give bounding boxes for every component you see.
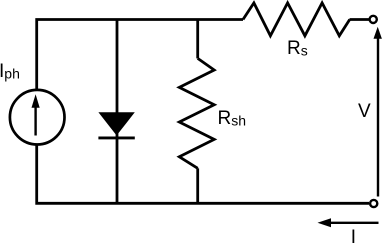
voltage arrow V (line) (377, 37, 379, 197)
terminal negative (open circle) (370, 200, 377, 207)
wire top horizontal left + left vertical (corner) (37, 20, 243, 91)
label Rsh (218, 108, 247, 130)
wire Rsh branch bottom lead (196, 168, 199, 203)
diode D cathode bar (98, 136, 134, 139)
label Rs (287, 38, 308, 60)
resistor Rs (series) zigzag (243, 3, 350, 36)
current arrow I (head) (318, 218, 332, 227)
resistor Rsh (shunt) zigzag (179, 58, 214, 168)
diode D triangle (98, 112, 134, 135)
label Iph (0, 61, 20, 83)
voltage arrow V (head) (374, 27, 382, 39)
wire left vertical (bottom) + bottom horizontal (corner) (37, 145, 369, 204)
wire diode branch vertical (116, 20, 119, 204)
label V (358, 101, 371, 123)
terminal positive (open circle) (370, 16, 377, 23)
wire Rs to positive terminal (350, 18, 370, 21)
label I (351, 227, 356, 249)
current source Iph circle (10, 90, 65, 145)
wire Rsh branch top lead (196, 20, 199, 59)
current arrow I (line) (329, 222, 379, 224)
current source arrow (34, 106, 36, 136)
